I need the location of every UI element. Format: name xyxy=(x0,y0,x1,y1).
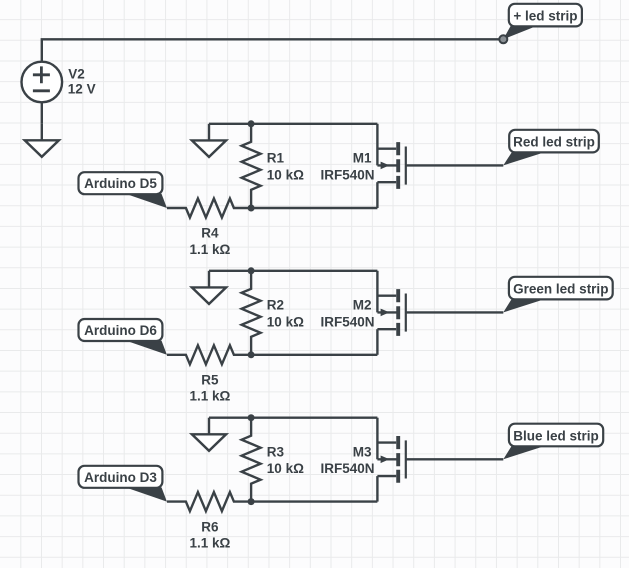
svg-text:R5: R5 xyxy=(201,373,219,388)
ground (R2 block) xyxy=(192,271,226,304)
voltage source V2 xyxy=(22,62,63,103)
wire ground bus xyxy=(209,270,377,272)
svg-text:1.1 kΩ: 1.1 kΩ xyxy=(189,389,230,404)
wire ground bus xyxy=(209,417,377,419)
callout Arduino D3 xyxy=(79,466,167,502)
wire gate bus xyxy=(251,354,377,356)
wire to led strip xyxy=(406,458,504,460)
svg-text:M3: M3 xyxy=(353,445,372,460)
svg-text:R3: R3 xyxy=(267,445,285,460)
svg-text:R1: R1 xyxy=(267,151,285,166)
callout Arduino D6 xyxy=(79,319,167,355)
svg-text:IRF540N: IRF540N xyxy=(320,314,374,329)
wire gate bus xyxy=(251,207,377,209)
ground (R1 block) xyxy=(192,124,226,157)
svg-text:+ led strip: + led strip xyxy=(513,9,577,24)
svg-text:M2: M2 xyxy=(353,298,372,313)
callout Arduino D5 xyxy=(79,172,167,208)
svg-text:10 kΩ: 10 kΩ xyxy=(267,314,304,329)
wire gate bus xyxy=(251,500,377,502)
callout + led strip xyxy=(503,4,582,40)
junction R1 top xyxy=(248,120,255,127)
transistor M1 xyxy=(377,124,405,208)
callout Red led strip xyxy=(503,130,599,166)
svg-text:IRF540N: IRF540N xyxy=(320,461,374,476)
resistor R1 xyxy=(242,124,261,208)
svg-text:V2: V2 xyxy=(68,67,85,82)
junction R2 bottom xyxy=(248,351,255,358)
wire V2 negative to ground xyxy=(41,102,43,123)
svg-text:IRF540N: IRF540N xyxy=(320,167,374,182)
svg-text:1.1 kΩ: 1.1 kΩ xyxy=(189,535,230,550)
transistor M3 xyxy=(377,418,405,502)
resistor R5 xyxy=(167,345,251,364)
svg-text:1.1 kΩ: 1.1 kΩ xyxy=(189,242,230,257)
ground (V2) xyxy=(25,124,59,157)
svg-text:Arduino D6: Arduino D6 xyxy=(84,323,157,338)
svg-text:M1: M1 xyxy=(353,151,372,166)
transistor M2 xyxy=(377,271,405,355)
wire to led strip xyxy=(406,164,504,166)
svg-text:10 kΩ: 10 kΩ xyxy=(267,461,304,476)
svg-text:Green led strip: Green led strip xyxy=(513,282,608,297)
svg-text:Blue led strip: Blue led strip xyxy=(513,429,599,444)
resistor R4 xyxy=(167,199,251,218)
svg-text:R6: R6 xyxy=(201,519,219,534)
resistor R6 xyxy=(167,492,251,511)
wire to led strip xyxy=(406,311,504,313)
svg-text:10 kΩ: 10 kΩ xyxy=(267,167,304,182)
ground (R3 block) xyxy=(192,418,226,451)
svg-text:Arduino D5: Arduino D5 xyxy=(84,176,157,191)
resistor R2 xyxy=(242,271,261,355)
node + led strip xyxy=(499,35,507,43)
resistor R3 xyxy=(242,418,261,502)
svg-text:12 V: 12 V xyxy=(68,81,96,96)
junction R3 bottom xyxy=(248,498,255,505)
wire ground bus xyxy=(209,123,377,125)
junction R3 top xyxy=(248,414,255,421)
svg-text:R4: R4 xyxy=(201,226,219,241)
wire V2 positive to + led strip node xyxy=(42,39,504,62)
callout Blue led strip xyxy=(503,424,603,460)
junction R1 bottom xyxy=(248,205,255,212)
svg-text:Arduino D3: Arduino D3 xyxy=(84,470,157,485)
junction R2 top xyxy=(248,267,255,274)
callout Green led strip xyxy=(503,277,612,313)
svg-text:Red led strip: Red led strip xyxy=(513,135,595,150)
svg-text:R2: R2 xyxy=(267,298,284,313)
